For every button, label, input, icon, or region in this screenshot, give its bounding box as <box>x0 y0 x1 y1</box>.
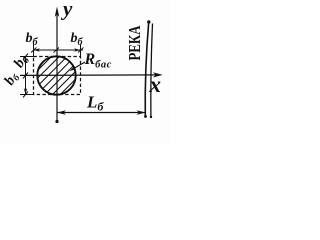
river bank double line <box>144 20 152 118</box>
svg-text:bб: bб <box>1 68 23 89</box>
top dimension line b_b <box>31 44 84 57</box>
left dimension line b_b <box>20 54 34 98</box>
svg-text:y: y <box>60 0 73 21</box>
leader R_bas <box>70 62 86 71</box>
bottom dimension line L_b <box>57 110 146 115</box>
svg-text:РЕКА: РЕКА <box>125 25 144 61</box>
svg-text:bб: bб <box>11 51 33 72</box>
svg-text:bб: bб <box>71 31 84 48</box>
y-axis <box>55 7 60 124</box>
svg-text:bб: bб <box>26 31 39 48</box>
svg-text:Lб: Lб <box>86 93 104 114</box>
well circle (hatched) <box>6 32 99 125</box>
svg-text:Rбас: Rбас <box>84 51 112 71</box>
block outline (dashed square) <box>34 57 81 95</box>
x-axis <box>20 72 163 77</box>
